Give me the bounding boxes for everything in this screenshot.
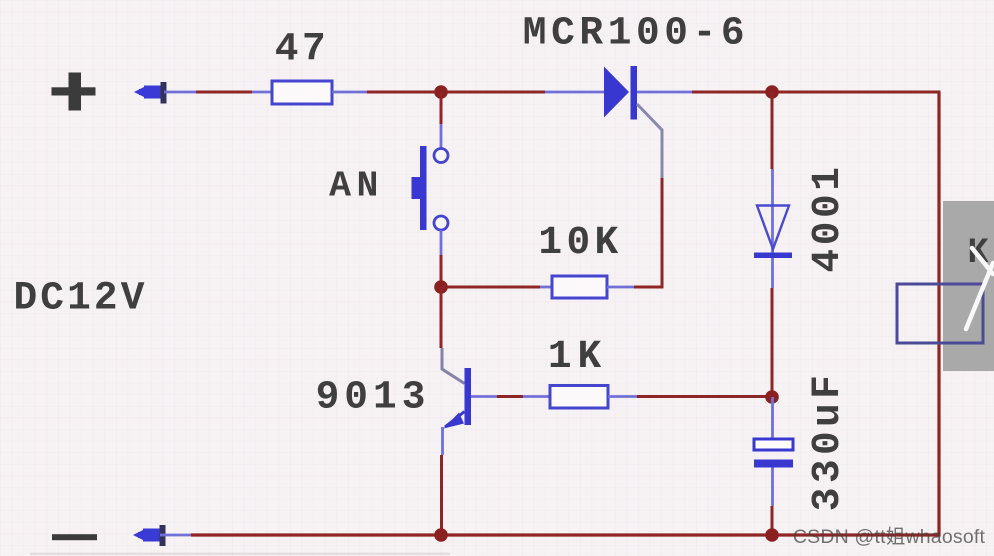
wire: capacitor to rail red xyxy=(771,506,774,535)
svg-text:47: 47 xyxy=(275,27,329,72)
wire: into R3 blue xyxy=(523,395,550,398)
junction node A xyxy=(434,85,448,99)
junction node F xyxy=(765,528,779,542)
junction node E xyxy=(434,528,448,542)
transistor Q1 9013 xyxy=(444,368,472,429)
relay K body (gray) xyxy=(943,201,994,371)
terminal arrow top left xyxy=(134,82,167,104)
junction node D xyxy=(765,390,779,404)
wire: base lead blue xyxy=(471,395,497,398)
power - terminal xyxy=(52,534,97,540)
wire: collector lead gray-blue xyxy=(442,348,465,384)
wire: capacitor to rail blue xyxy=(771,468,774,507)
wire: to node D red xyxy=(771,288,774,391)
wire: node B down red xyxy=(771,92,774,169)
wire: R2 to gate corner red xyxy=(634,286,664,289)
resistor R1 xyxy=(272,81,332,104)
svg-text:4001: 4001 xyxy=(805,163,850,272)
watermark smudge bottom xyxy=(30,553,450,556)
SCR U1 MCR100-6 xyxy=(604,66,662,178)
wire: cathode to right rail red xyxy=(692,91,941,94)
wire: into R2 blue xyxy=(540,286,552,289)
wire: node A to SCR anode blue xyxy=(545,91,606,94)
junction node B xyxy=(765,85,779,99)
wire: button to node C blue xyxy=(440,230,443,255)
wire: right rail xyxy=(937,92,940,537)
relay coil box xyxy=(897,284,983,343)
svg-text:330uF: 330uF xyxy=(805,371,850,512)
wire: node A down red xyxy=(440,92,443,124)
wire: SCR gate red xyxy=(661,178,664,287)
diode D1 4001 xyxy=(754,206,792,259)
wire: emitter down blue xyxy=(441,427,444,455)
svg-text:1K: 1K xyxy=(548,334,607,379)
wire: node C to R2 red xyxy=(441,286,540,289)
wire: to button blue xyxy=(440,124,443,150)
wire: R3 to node D red xyxy=(637,395,772,398)
wire: button to node C red xyxy=(440,255,443,287)
wire: R3 out blue xyxy=(608,395,637,398)
svg-text:10K: 10K xyxy=(538,220,622,265)
wire: diode anode blue xyxy=(771,169,774,253)
wire: SCR cathode blue xyxy=(637,91,692,94)
power + terminal xyxy=(52,73,96,111)
relay armature white xyxy=(966,248,993,329)
junction node C xyxy=(434,280,448,294)
svg-text:CSDN @tt姐whaosoft: CSDN @tt姐whaosoft xyxy=(793,526,986,548)
capacitor C1 330uF xyxy=(754,439,793,468)
svg-text:9013: 9013 xyxy=(316,375,431,420)
wire: node A span red xyxy=(367,91,545,94)
wire: base red xyxy=(497,395,523,398)
wire: R1 to node A blue xyxy=(332,91,367,94)
svg-text:DC12V: DC12V xyxy=(13,276,147,321)
terminal arrow bottom left xyxy=(133,525,166,546)
wire: emitter to ground rail red xyxy=(440,455,443,535)
resistor R2 xyxy=(552,276,607,298)
wire: ground rail red xyxy=(191,533,941,536)
svg-text:MCR100-6: MCR100-6 xyxy=(523,11,749,56)
wire: V+ feed red xyxy=(196,91,252,94)
svg-text:AN: AN xyxy=(329,166,384,207)
wire: ground rail blue xyxy=(160,534,191,537)
wire: node C down red xyxy=(440,287,443,348)
wire: node D to capacitor blue xyxy=(771,397,774,439)
wire: into R1 xyxy=(252,91,272,94)
wire: R2 out blue xyxy=(607,286,634,289)
push button AN xyxy=(412,146,449,230)
resistor R3 xyxy=(550,386,608,409)
wire: V+ feed blue xyxy=(164,91,196,94)
wire: diode cathode blue xyxy=(771,258,774,288)
